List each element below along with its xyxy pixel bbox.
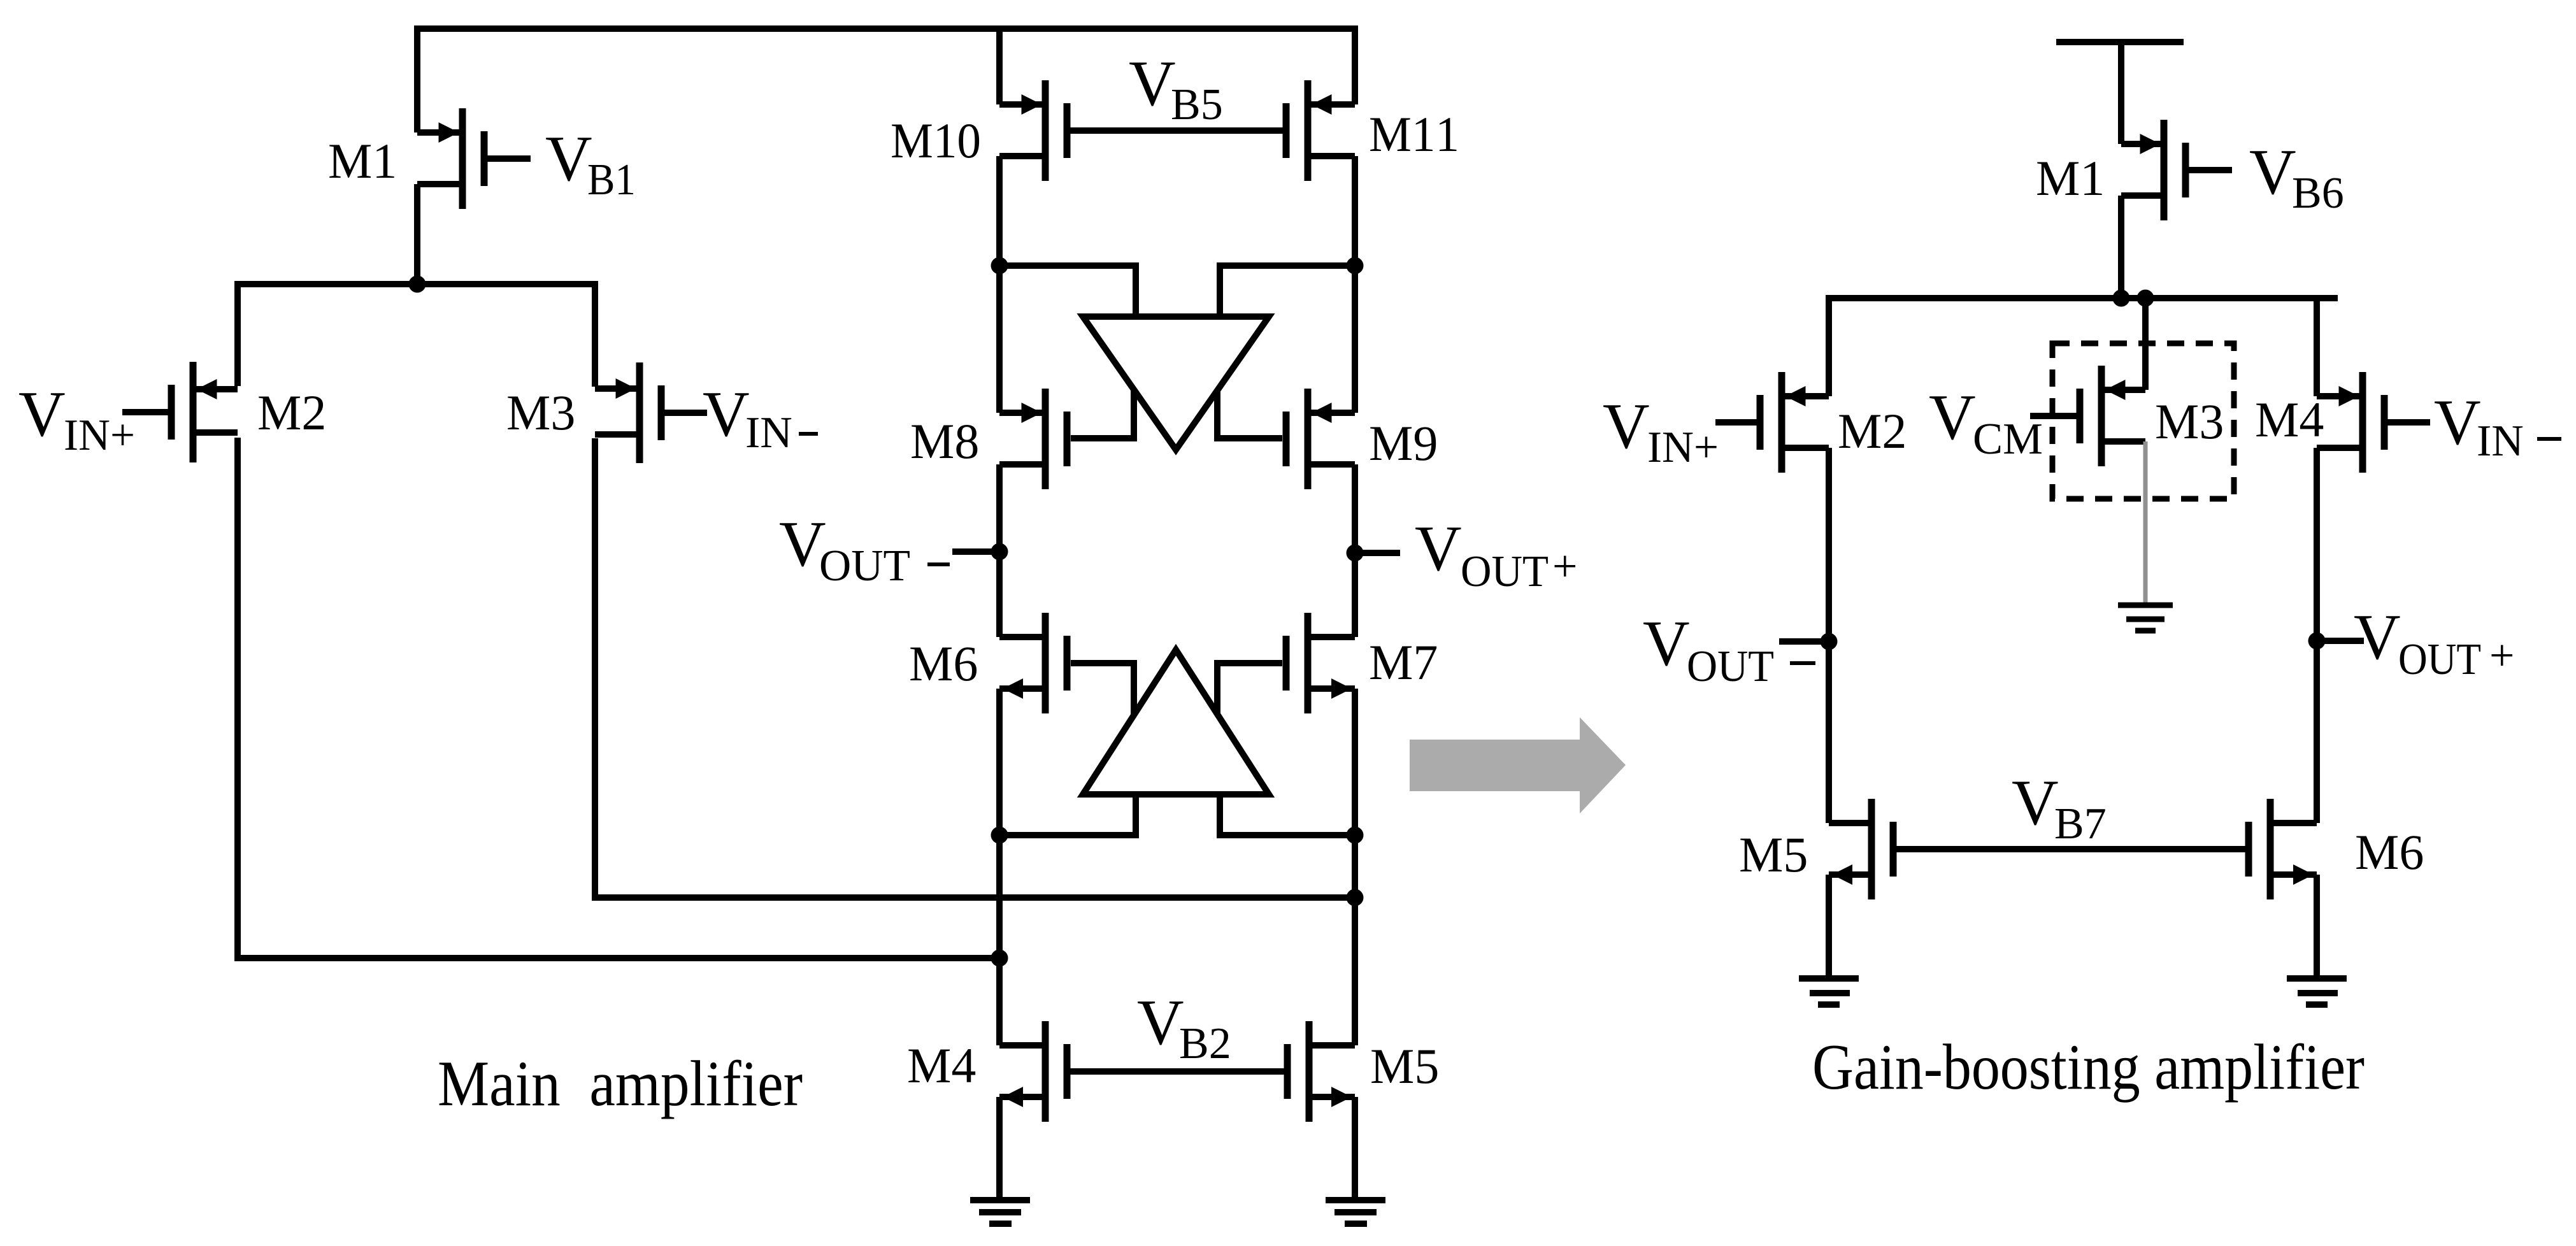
wire boost1 right tap	[1220, 266, 1355, 317]
transistor M8	[999, 389, 1067, 489]
svg-text:M3: M3	[506, 385, 575, 440]
node VOUT- boost dot	[1821, 633, 1838, 650]
svg-text:M11: M11	[1369, 106, 1459, 162]
transistor M5 boost	[1829, 799, 1893, 899]
node boost-tail dot1	[2113, 290, 2130, 307]
svg-text:M6: M6	[2355, 824, 2424, 880]
svg-text:V: V	[1129, 48, 1176, 120]
node boost-tail dot2	[2137, 290, 2154, 307]
transistor M6 boost	[2249, 799, 2317, 899]
wire boost2 left tap	[999, 794, 1136, 835]
svg-text:M3: M3	[2155, 394, 2224, 449]
svg-text:V: V	[545, 123, 592, 195]
svg-text:V: V	[2434, 387, 2481, 459]
ground M6 boost	[2287, 978, 2347, 1005]
wire M7 gate tap	[1217, 663, 1282, 714]
wire VB5 gate line	[1067, 127, 1286, 134]
svg-text:V: V	[1415, 513, 1462, 585]
wire VDD top rail	[417, 29, 1355, 132]
transistor M3 boost	[2080, 366, 2145, 466]
node VOUT- dot	[991, 543, 1008, 561]
wire M5 source down	[1352, 1097, 1358, 1200]
ground M5 boost	[1799, 978, 1859, 1005]
node VOUT+ dot	[1347, 545, 1364, 562]
svg-text:B7: B7	[2054, 799, 2107, 849]
node cascode-left dot	[991, 257, 1008, 275]
svg-text:M6: M6	[909, 636, 978, 691]
node tail junction dot	[409, 276, 426, 293]
transistor M3	[595, 362, 661, 463]
svg-text:OUT: OUT	[1687, 642, 1774, 691]
wire boost node line	[1829, 298, 2338, 396]
transistor M7	[1286, 613, 1355, 713]
label VB2	[1137, 987, 1231, 1068]
node M2-drain dot	[991, 950, 1008, 967]
wire VDD T-bar	[2056, 42, 2184, 144]
svg-text:IN: IN	[2477, 417, 2524, 466]
transistor M4	[999, 1021, 1067, 1122]
svg-text:IN+: IN+	[1647, 423, 1719, 472]
wire M4 source down	[996, 1097, 1003, 1200]
svg-text:M2: M2	[257, 385, 326, 440]
svg-text:M1: M1	[328, 133, 397, 189]
svg-text:IN: IN	[745, 408, 792, 457]
wire M4b drain stub	[2314, 298, 2320, 396]
wire VOUT+ lead	[1355, 550, 1400, 556]
svg-text:M4: M4	[907, 1038, 976, 1093]
wire boost1 left tap	[999, 266, 1136, 317]
transistor M11	[1286, 80, 1355, 181]
svg-text:V: V	[1643, 608, 1690, 680]
svg-text:+: +	[1552, 542, 1577, 591]
wire M1 source to tail node	[414, 184, 420, 284]
op-amp boost2 (up)	[1083, 650, 1269, 794]
wire left column mid	[996, 464, 1003, 637]
dashed box M3	[2052, 343, 2234, 499]
wire M4b column	[2314, 448, 2320, 823]
transistor M2	[171, 362, 238, 462]
svg-text:M4: M4	[2255, 392, 2324, 447]
svg-text:Gain-boosting amplifier: Gain-boosting amplifier	[1812, 1031, 2365, 1103]
node cascode-right dot	[1347, 257, 1364, 275]
wire M1b gate lead	[2186, 167, 2232, 173]
label VOUT+ main	[1415, 513, 1577, 596]
node fold-right dot	[1347, 827, 1364, 844]
svg-text:Main amplifier: Main amplifier	[438, 1048, 803, 1120]
label VOUT+ boost	[2354, 601, 2514, 684]
svg-text:V: V	[1137, 987, 1184, 1059]
svg-text:M5: M5	[1370, 1038, 1439, 1094]
wire M10 source stub	[996, 29, 1003, 104]
wire tail node line	[238, 284, 595, 387]
wire M1 gate lead	[484, 155, 531, 162]
node fold-left dot	[991, 827, 1008, 844]
wire VOUT- lead	[952, 548, 999, 555]
transistor M2 boost	[1760, 372, 1829, 473]
svg-text:M9: M9	[1369, 415, 1438, 471]
wire M3 drain cross line	[595, 438, 1355, 898]
svg-text:OUT: OUT	[2398, 635, 2481, 684]
label VB5	[1129, 48, 1223, 129]
svg-text:OUT: OUT	[1461, 547, 1549, 596]
wire M6b source down	[2314, 875, 2320, 978]
wire M3b source gray	[2143, 441, 2148, 605]
wire M2b gate lead	[1715, 419, 1760, 426]
label VOUT- main	[779, 508, 950, 591]
transistor M6	[999, 613, 1067, 713]
svg-text:V: V	[2354, 601, 2401, 673]
svg-text:V: V	[703, 378, 750, 450]
wire M3b gate lead	[2030, 413, 2080, 419]
wire right column lower	[1352, 689, 1358, 1045]
svg-text:V: V	[1929, 382, 1976, 454]
transistor M10	[999, 80, 1067, 181]
label VB6	[2249, 136, 2344, 218]
svg-text:M1: M1	[2036, 150, 2105, 206]
wire right column mid	[1352, 464, 1358, 637]
svg-text:M8: M8	[910, 413, 979, 469]
wire VOUT- boost lead	[1779, 638, 1829, 645]
ground M3 boost	[2118, 605, 2173, 631]
wire VOUT+ boost lead	[2317, 638, 2364, 644]
label VB7	[2012, 767, 2107, 849]
label VB1	[545, 123, 636, 204]
wire left column upper	[996, 156, 1003, 413]
ground M4	[970, 1200, 1030, 1224]
wire M2 gate lead	[122, 409, 171, 415]
wire M2 drain cross line	[238, 438, 999, 958]
svg-text:B1: B1	[587, 155, 636, 204]
svg-text:CM: CM	[1973, 415, 2043, 464]
wire left column lower	[996, 689, 1003, 1045]
wire VB7 gate line	[1893, 846, 2249, 852]
svg-text:OUT: OUT	[819, 541, 910, 591]
wire M2b column	[1826, 448, 1832, 823]
svg-text:M5: M5	[1739, 827, 1808, 882]
svg-text:+: +	[2489, 631, 2514, 680]
wire M4b gate lead	[2384, 419, 2430, 426]
wire boost1 out to M8 gate	[1071, 390, 1134, 438]
node M3-drain dot	[1347, 889, 1364, 906]
transistor M9	[1286, 389, 1355, 489]
transistor M4 boost	[2317, 372, 2384, 473]
svg-text:B2: B2	[1179, 1019, 1231, 1068]
wire boost2 right tap	[1220, 794, 1355, 835]
label VIN+ main	[18, 378, 135, 460]
svg-text:V: V	[1603, 390, 1650, 462]
svg-text:M2: M2	[1838, 403, 1907, 459]
svg-text:B5: B5	[1171, 80, 1223, 129]
label VOUT- boost	[1643, 608, 1815, 691]
label VIN- boost	[2434, 387, 2561, 466]
svg-text:V: V	[2012, 767, 2059, 839]
svg-text:B6: B6	[2292, 169, 2344, 218]
svg-text:V: V	[18, 378, 66, 450]
transistor M1 boost	[2121, 120, 2186, 220]
wire M3 gate lead	[661, 410, 707, 416]
arrow main-to-boost	[1410, 717, 1626, 813]
ground M5	[1326, 1200, 1385, 1224]
wire M1b source to node	[2118, 196, 2124, 298]
svg-text:IN+: IN+	[64, 411, 135, 460]
node VOUT+ boost dot	[2308, 633, 2326, 650]
wire M5b source down	[1826, 875, 1832, 978]
svg-text:V: V	[2249, 136, 2296, 208]
wire boost1 out to M9 gate	[1217, 390, 1282, 438]
transistor M1	[417, 108, 484, 209]
wire M3b drain stub	[2142, 298, 2149, 390]
label VIN- main	[703, 378, 818, 457]
wire right column upper	[1352, 156, 1358, 413]
label VIN+ boost	[1603, 390, 1719, 472]
transistor M5	[1287, 1021, 1355, 1122]
svg-text:M7: M7	[1369, 634, 1438, 690]
svg-text:M10: M10	[891, 113, 981, 168]
wire VB2 gate line	[1067, 1068, 1287, 1075]
wire M6 gate tap	[1071, 663, 1134, 715]
op-amp boost1 (down)	[1083, 317, 1269, 450]
label VCM	[1929, 382, 2043, 464]
